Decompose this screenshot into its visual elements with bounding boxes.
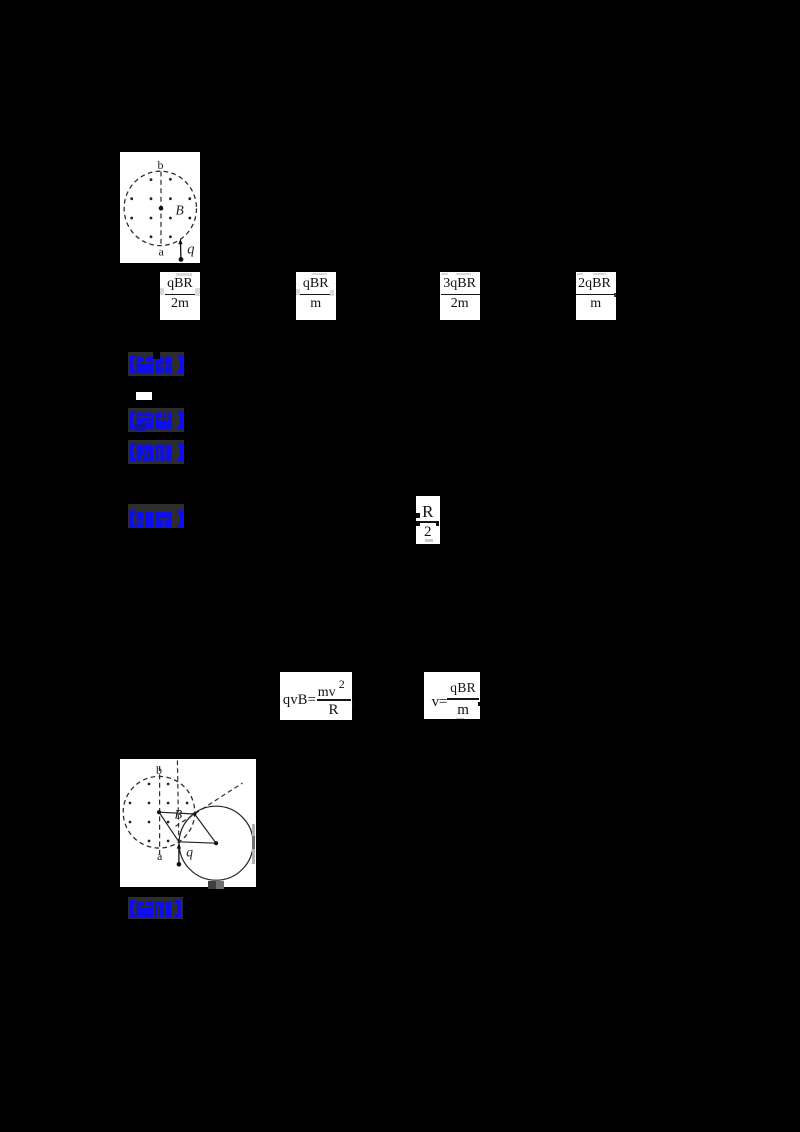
charge dot bbox=[176, 862, 181, 867]
vertical dashed diameter ab bbox=[158, 766, 160, 855]
highlighted label 专题 bbox=[128, 408, 184, 432]
center dot of field circle bbox=[156, 810, 160, 814]
figure: problem diagram (field region circle) bbox=[120, 152, 200, 263]
field dots row 1 bbox=[149, 178, 152, 181]
vertical dashed line through entry point bbox=[177, 761, 178, 843]
center dot bbox=[158, 206, 163, 211]
trajectory circle bbox=[179, 806, 253, 880]
black text marks clipped at R/2 box edges bbox=[416, 513, 420, 518]
highlighted label 点评 bbox=[128, 897, 183, 919]
figure: solution diagram with trajectory circle bbox=[120, 759, 257, 887]
solution formula v = qBR/m bbox=[424, 672, 480, 719]
highlighted label 解答 bbox=[128, 504, 184, 528]
option A formula qBR/2m bbox=[160, 272, 201, 320]
small inline formula placeholder bbox=[136, 392, 153, 401]
option B formula qBR/m bbox=[296, 272, 337, 321]
option C formula 3qBR/2m bbox=[440, 272, 480, 320]
comma after formula clipped at edge bbox=[352, 701, 354, 707]
svg-text:a: a bbox=[157, 849, 163, 863]
highlighted label 分析 bbox=[128, 440, 184, 464]
field dots row 2 bbox=[130, 197, 133, 200]
svg-text:b: b bbox=[156, 763, 162, 777]
radius line center to exit point bbox=[159, 812, 195, 814]
velocity arrow of charge q bbox=[177, 848, 179, 863]
svg-text:B: B bbox=[175, 202, 183, 217]
dashed field boundary circle bbox=[124, 171, 196, 245]
field dots bbox=[147, 783, 150, 786]
velocity arrow of charge q bbox=[179, 243, 181, 258]
svg-text:b: b bbox=[157, 158, 163, 172]
chord center to entry point bbox=[159, 812, 179, 842]
svg-text:a: a bbox=[158, 244, 164, 258]
svg-text:q: q bbox=[187, 241, 194, 257]
gray artifacts on option formula images bbox=[176, 273, 192, 276]
comma after formula clipped at edge bbox=[478, 702, 480, 706]
exit point dot bbox=[192, 812, 196, 816]
gray block at bottom edge of figure bbox=[208, 881, 215, 889]
trajectory center dot bbox=[214, 841, 218, 845]
black notch over 考点 strip bbox=[153, 352, 161, 359]
dashed field boundary circle bbox=[123, 776, 195, 848]
option D formula 2qBR/m bbox=[576, 272, 617, 320]
line exit point to trajectory center bbox=[194, 814, 216, 843]
highlighted label 考点 bbox=[128, 352, 184, 376]
field dots row 3 bbox=[130, 216, 133, 219]
charge dot bbox=[178, 257, 183, 262]
svg-text:B: B bbox=[174, 808, 182, 822]
inline fraction R/2 in solution paragraph bbox=[416, 496, 441, 544]
vertical dashed diameter ab bbox=[160, 171, 162, 245]
gray smudge at right edge of figure bbox=[252, 824, 255, 864]
solution formula qvB = mv^2/R bbox=[280, 672, 352, 720]
dark blue descender blob under 专题 bbox=[135, 424, 145, 431]
line entry point to trajectory center bbox=[178, 842, 215, 843]
dashed exit direction tangent line bbox=[175, 783, 242, 826]
svg-text:q: q bbox=[186, 845, 193, 860]
field dots row 4 bbox=[149, 235, 152, 238]
